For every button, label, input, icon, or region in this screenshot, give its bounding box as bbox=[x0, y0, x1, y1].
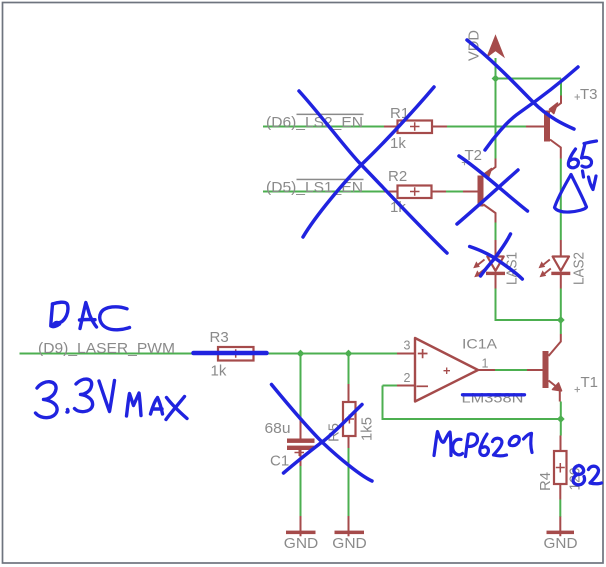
wire R5 top drop bbox=[348, 354, 350, 385]
wire T3 emitter drop bbox=[560, 79, 562, 96]
LED LAS1 bbox=[473, 240, 505, 289]
wire LAS1 cathode down bbox=[496, 289, 561, 321]
cross-out X3 stroke a (over T3) bbox=[467, 40, 574, 129]
resistor R4 box bbox=[554, 451, 567, 484]
svg-text:IC1A: IC1A bbox=[462, 336, 498, 352]
wire net (D6)_LS2_EN row bbox=[263, 126, 384, 128]
resistor R1 box bbox=[398, 121, 433, 134]
junction LED bottoms bbox=[557, 316, 565, 324]
wire T3 collector to LAS2 bbox=[560, 159, 562, 241]
wire junction to T1 collector bbox=[560, 320, 562, 334]
svg-text:R4: R4 bbox=[537, 472, 554, 491]
cross-out X3 stroke b bbox=[485, 67, 578, 150]
svg-text:LM358N: LM358N bbox=[462, 390, 524, 406]
svg-text:LAS2: LAS2 bbox=[571, 252, 588, 285]
resistor R2 box bbox=[398, 186, 432, 199]
capacitor C1 plates bbox=[287, 439, 315, 443]
GND symbol C1 bbox=[286, 531, 316, 535]
svg-text:R2: R2 bbox=[388, 168, 407, 185]
resistor R2 leads bbox=[384, 191, 446, 193]
svg-text:3: 3 bbox=[404, 339, 411, 353]
transistor T2 bbox=[478, 159, 496, 223]
cross-out X5 stroke b bbox=[284, 405, 363, 474]
R5 GND lead bbox=[348, 516, 350, 536]
junction VDD bbox=[492, 75, 500, 83]
wire T2 collector to LAS1 bbox=[495, 223, 497, 241]
junction PWM/C1 bbox=[297, 350, 305, 358]
svg-text:1k: 1k bbox=[211, 363, 227, 380]
svg-text:(D9)_LASER_PWM: (D9)_LASER_PWM bbox=[38, 340, 175, 357]
wire LAS2 cathode down to junction bbox=[560, 289, 562, 321]
T2 base lead bbox=[463, 191, 478, 193]
resistor R3 leads bbox=[206, 353, 267, 355]
wire VDD horizontal to T3 emitter bbox=[496, 78, 562, 80]
origin cross T3 bbox=[575, 94, 581, 100]
svg-text:(D5)_LS1_EN: (D5)_LS1_EN bbox=[266, 179, 363, 196]
op-amp minus input mark bbox=[417, 385, 429, 387]
wire T1 emitter to junction bbox=[560, 402, 562, 420]
T3 base lead bbox=[526, 126, 544, 128]
wire VDD stem bbox=[495, 58, 497, 79]
handwriting 6,5 v and diode triangle bbox=[555, 141, 597, 212]
T1 base lead bbox=[527, 369, 543, 371]
cross-out X1 stroke a (over EN labels) bbox=[299, 91, 447, 253]
wire (D9)_LASER_PWM bbox=[20, 353, 207, 355]
cross-out X4 stroke b bbox=[470, 247, 523, 280]
wire R5 bottom to GND bbox=[348, 448, 350, 516]
cross-out X5 stroke a (over C1/R5) bbox=[272, 385, 373, 482]
origin cross T1 bbox=[575, 387, 581, 393]
wire R4 bottom to GND bbox=[559, 500, 561, 518]
wire opamp out to T1 base bbox=[495, 369, 527, 371]
handwriting 3.3V MAX bbox=[36, 379, 188, 419]
op-amp IC1A triangle bbox=[415, 338, 478, 402]
svg-text:C1: C1 bbox=[270, 453, 289, 470]
resistor R1 leads bbox=[384, 126, 447, 128]
svg-text:R3: R3 bbox=[210, 329, 229, 346]
wire R2 out to T2 base bbox=[446, 191, 463, 193]
origin cross T2 bbox=[462, 160, 468, 166]
wire feedback loop bbox=[383, 386, 561, 420]
wire C1 top drop bbox=[300, 354, 302, 420]
svg-text:GND: GND bbox=[284, 536, 319, 552]
svg-text:T3: T3 bbox=[580, 86, 598, 103]
handwriting MCP6201 bbox=[434, 432, 532, 457]
wire R3 out bbox=[267, 353, 398, 355]
strike through LM358N bbox=[463, 393, 525, 396]
op-amp center plus bbox=[444, 368, 451, 375]
wire C1 bottom to GND bbox=[300, 466, 302, 516]
C1 GND lead bbox=[300, 516, 302, 536]
handwriting 82 bbox=[573, 465, 601, 484]
transistor T3 bbox=[544, 96, 561, 159]
resistor R3 box bbox=[218, 347, 254, 361]
svg-text:GND: GND bbox=[544, 536, 578, 552]
wire opamp pin2 stub bbox=[383, 385, 398, 387]
svg-text:68u: 68u bbox=[265, 420, 291, 437]
wire VDD to T2 emitter bbox=[495, 79, 497, 159]
opamp output lead bbox=[478, 369, 495, 371]
svg-text:(D6)_LS2_EN: (D6)_LS2_EN bbox=[266, 114, 363, 131]
svg-text:1k: 1k bbox=[390, 135, 406, 152]
strike through R3 bbox=[194, 351, 267, 356]
junction T1 emitter / feedback bbox=[557, 415, 565, 423]
resistor R4 leads bbox=[559, 436, 561, 537]
LED LAS2 bbox=[539, 240, 571, 289]
transistor T1 bbox=[543, 334, 562, 402]
svg-text:GND: GND bbox=[332, 536, 367, 552]
svg-text:2: 2 bbox=[404, 371, 411, 385]
svg-text:T1: T1 bbox=[581, 374, 599, 391]
resistor R5 box bbox=[343, 402, 356, 436]
svg-text:1: 1 bbox=[482, 357, 489, 371]
wire junction to R4 bbox=[560, 419, 562, 436]
opamp pin2 lead bbox=[397, 385, 415, 387]
opamp pin3 lead bbox=[397, 353, 415, 355]
cross-out X4 stroke a (over LAS1) bbox=[481, 234, 511, 276]
wire R1 out to T3 base bbox=[447, 126, 526, 128]
GND symbol R4 bbox=[547, 531, 575, 535]
wire net (D5)_LS1_EN row bbox=[263, 191, 384, 193]
GND symbol R5 bbox=[335, 531, 365, 535]
resistor R5 leads bbox=[348, 384, 350, 448]
cross-out X2 stroke a (over T2) bbox=[459, 156, 528, 211]
cross-out X2 stroke b bbox=[457, 170, 518, 224]
junction PWM/R5 bbox=[345, 350, 353, 358]
capacitor C1 leads bbox=[300, 419, 302, 466]
capacitor C1 polarity + bbox=[295, 449, 305, 456]
cross-out X1 stroke b bbox=[303, 87, 434, 237]
handwriting DAC bbox=[51, 302, 130, 330]
svg-text:1k5: 1k5 bbox=[359, 417, 376, 441]
VDD power symbol arrow bbox=[486, 34, 505, 58]
op-amp plus input mark bbox=[418, 349, 428, 358]
